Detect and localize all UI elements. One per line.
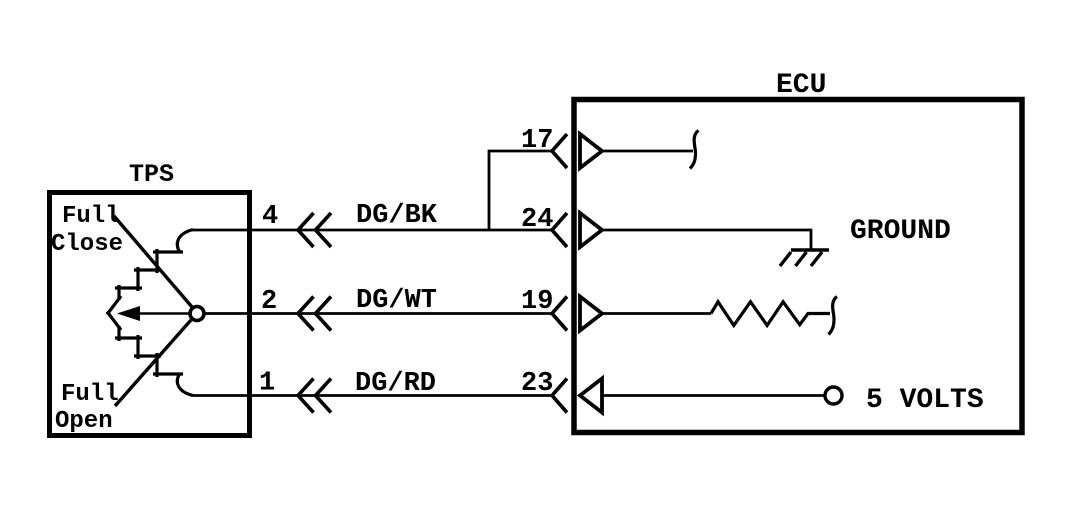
svg-text:Full: Full xyxy=(62,203,120,230)
svg-text:DG/BK: DG/BK xyxy=(356,201,438,231)
TPS box xyxy=(50,193,250,436)
pin 24 internal wire to ground xyxy=(602,230,811,249)
svg-text:4: 4 xyxy=(262,202,278,232)
svg-text:GROUND: GROUND xyxy=(850,216,951,247)
pin 23 buffer triangle (points left) xyxy=(580,379,602,413)
svg-text:1: 1 xyxy=(259,369,275,399)
connector chevrons on wire 4 xyxy=(298,213,331,247)
svg-text:23: 23 xyxy=(521,369,553,399)
svg-text:TPS: TPS xyxy=(129,160,174,189)
wire branch to ECU pin 17 xyxy=(489,151,552,230)
connector chevrons on wire 1 xyxy=(298,379,331,413)
pin 17 buffer triangle xyxy=(580,134,602,168)
resistor R (idle circuit) xyxy=(711,302,830,326)
pin 23 connector chevron xyxy=(552,379,567,413)
svg-text:Open: Open xyxy=(55,408,113,435)
svg-text:DG/WT: DG/WT xyxy=(356,286,437,316)
pin 19 buffer triangle xyxy=(580,297,602,331)
svg-text:DG/RD: DG/RD xyxy=(355,369,436,399)
svg-text:24: 24 xyxy=(521,205,553,235)
wiper node circle xyxy=(190,307,204,321)
full open diagonal line xyxy=(115,320,191,406)
svg-text:Full: Full xyxy=(61,381,119,408)
svg-text:19: 19 xyxy=(521,287,553,317)
svg-text:Close: Close xyxy=(51,231,123,258)
connector chevrons on wire 2 xyxy=(298,297,331,331)
pin 17 connector chevron xyxy=(552,134,567,168)
svg-text:17: 17 xyxy=(521,126,553,156)
wiper arrow xyxy=(136,312,189,315)
svg-text:2: 2 xyxy=(261,287,277,317)
pin 23 internal wire from 5V xyxy=(602,394,825,397)
pin 19 internal wire xyxy=(602,312,711,315)
svg-text:ECU: ECU xyxy=(776,70,826,101)
pin 24 connector chevron xyxy=(552,213,567,247)
ground symbol xyxy=(791,248,829,251)
ECU box xyxy=(574,100,1022,433)
wire 4 (DG/BK) TPS pin 4 to ECU pin 24 xyxy=(191,229,552,232)
pin 19 connector chevron xyxy=(552,297,567,331)
pin 17 wire break squiggle xyxy=(690,131,699,169)
svg-text:5 VOLTS: 5 VOLTS xyxy=(866,385,984,416)
full close diagonal line xyxy=(114,216,192,307)
wire 2 (DG/WT) TPS pin 2 to ECU pin 19 xyxy=(206,312,553,315)
pin 24 buffer triangle xyxy=(580,213,602,247)
pin 19 wire break squiggle xyxy=(829,297,838,335)
5 volt source terminal circle xyxy=(825,387,842,404)
wire 1 (DG/RD) TPS pin 1 to ECU pin 23 xyxy=(191,394,552,397)
pin 17 internal wire xyxy=(602,150,693,153)
potentiometer resistive element (staircase arc with overshoot corners) xyxy=(177,230,193,253)
